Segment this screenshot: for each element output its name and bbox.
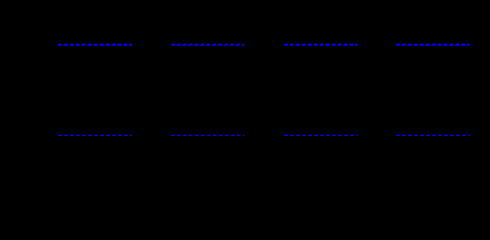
wire: bottom rail segment 4 (dashed blue highlight, node C4 to D4) xyxy=(396,134,470,136)
wire: bottom rail segment 2 (dashed blue highlight, node C2 to D2) xyxy=(171,134,245,136)
wire: top rail segment 3 (dashed blue highlight, node A3 to B3) xyxy=(284,44,357,47)
wire: bottom rail segment 3 (dashed blue highlight, node C3 to D3) xyxy=(284,134,357,136)
wire: top rail segment 2 (dashed blue highlight, node A2 to B2) xyxy=(171,44,244,47)
wire: top rail segment 1 (dashed blue highlight, node A1 to B1) xyxy=(58,44,132,47)
wire: top rail segment 4 (dashed blue highlight, node A4 to B4) xyxy=(396,44,470,47)
wire: bottom rail segment 1 (dashed blue highlight, node C1 to D1) xyxy=(58,134,132,136)
